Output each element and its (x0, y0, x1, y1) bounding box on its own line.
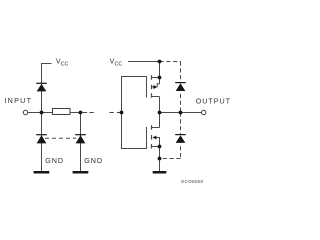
svg-text:CC: CC (61, 61, 69, 67)
svg-text:CC: CC (115, 62, 123, 68)
svg-text:GND: GND (84, 156, 102, 165)
svg-text:SC05650: SC05650 (181, 179, 203, 184)
svg-text:OUTPUT: OUTPUT (196, 96, 231, 105)
svg-text:INPUT: INPUT (4, 96, 31, 105)
svg-text:GND: GND (45, 156, 63, 165)
